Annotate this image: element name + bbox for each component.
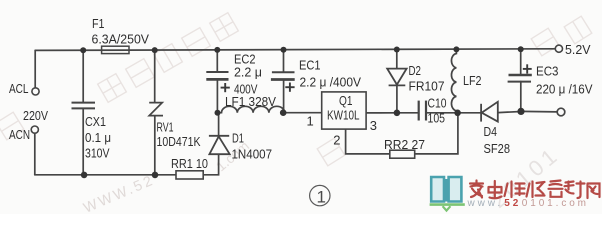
svg-text:0101.com: 0101.com (522, 198, 589, 209)
node RV1 top (152, 47, 158, 53)
wire left vertical to ACL (34, 50, 36, 87)
node EC3 top (518, 46, 524, 52)
terminal ACL (32, 88, 39, 95)
svg-text:310V: 310V (85, 145, 110, 160)
svg-text:LF2: LF2 (463, 73, 482, 88)
svg-text:SF28: SF28 (484, 141, 511, 156)
wire top rail (35, 49, 555, 51)
capacitor EC2 (206, 72, 228, 79)
svg-text:F1: F1 (92, 16, 105, 31)
faint box left edge (0, 112, 24, 140)
svg-text:KW10L: KW10L (327, 108, 360, 123)
resistor RR2 (390, 150, 415, 158)
node LF2 top (453, 46, 459, 52)
svg-text:LF1 328V: LF1 328V (225, 94, 276, 109)
wire D1 top (218, 113, 220, 136)
wire RV1 top (154, 50, 156, 102)
svg-text:220V: 220V (23, 108, 48, 123)
wire ACN down (34, 133, 36, 175)
IC Q1 KW10L (322, 92, 366, 129)
node RV1 bottom (152, 172, 159, 179)
capacitor EC1 (271, 72, 295, 79)
wire node to C10 (397, 112, 418, 114)
logo url www.520101.com (467, 198, 589, 209)
terminal output plus (555, 45, 562, 52)
wire EC2 bottom to LF1 node (216, 80, 218, 113)
svg-text:2: 2 (333, 133, 340, 148)
wire EC1 top (283, 50, 285, 72)
glyph wang (588, 184, 600, 199)
faint watermark latin runs (81, 138, 564, 217)
wire Q1 pin3 (366, 112, 397, 114)
wire node to Q1 pin1 (284, 112, 322, 114)
svg-text:105: 105 (428, 110, 446, 125)
svg-text:WWW.52: WWW.52 (81, 172, 157, 214)
wire RR2 right up to node (415, 113, 458, 154)
svg-text:Q1: Q1 (339, 93, 353, 108)
wire EC1 bottom (283, 80, 285, 113)
terminal output minus (557, 108, 565, 116)
diode D2 (387, 69, 406, 86)
node D2 top (394, 47, 400, 53)
plus EC2 (221, 83, 230, 92)
svg-text:6.3A/250V: 6.3A/250V (92, 32, 150, 47)
node LF1 left / EC2 bottom (215, 110, 221, 116)
inductor LF2 (451, 50, 456, 113)
figure number circled 1 (310, 185, 330, 205)
node CX1 top (80, 47, 86, 53)
faint watermark: diagonal glyph boxes top-left run (0, 13, 592, 166)
svg-text:220 μ /16V: 220 μ /16V (536, 82, 593, 97)
node LF1 right / EC1 bottom (280, 109, 287, 116)
wire EC3 bottom (520, 82, 522, 112)
wire Q1 pin2 down (346, 129, 390, 154)
svg-text:2.2 μ /400V: 2.2 μ /400V (300, 74, 362, 89)
fuse F1 (102, 46, 129, 53)
capacitor CX1 (72, 103, 96, 109)
wire CX1 bottom (82, 109, 84, 175)
wire EC3 top (520, 49, 522, 74)
svg-text:ACL: ACL (9, 81, 29, 96)
wire C10 to LF2 node (427, 112, 457, 114)
wire D2 top (396, 50, 398, 69)
capacitor EC3 (508, 75, 532, 82)
glyph jia (470, 181, 483, 198)
svg-text:D4: D4 (484, 124, 498, 139)
svg-text:ACN: ACN (9, 127, 30, 142)
diode D1 (209, 136, 230, 154)
plus EC1 (285, 83, 294, 92)
svg-text:C10: C10 (428, 96, 447, 111)
glyph liao (565, 182, 585, 199)
node LF2 bottom / C10 right (454, 110, 461, 117)
svg-text:5.2V: 5.2V (565, 42, 591, 57)
wire bottom-left rail (35, 174, 176, 176)
svg-text:1: 1 (317, 187, 326, 206)
svg-text:3: 3 (370, 118, 377, 133)
glyph dian (489, 181, 502, 198)
svg-text:0.1 μ: 0.1 μ (85, 130, 111, 145)
logo book base (430, 205, 465, 211)
svg-text:FR107: FR107 (409, 78, 445, 93)
svg-text:EC3: EC3 (536, 64, 559, 79)
node EC3 bottom (517, 108, 524, 115)
svg-text:RR1 10: RR1 10 (171, 156, 208, 171)
svg-text:EC1: EC1 (299, 57, 321, 72)
svg-text:1N4007: 1N4007 (232, 146, 273, 161)
node EC2 top (214, 47, 220, 53)
wire node to D4 (458, 112, 481, 114)
wire bottom-right rail to output (521, 110, 557, 113)
svg-text:D1: D1 (232, 131, 244, 146)
wire D2 bottom (396, 85, 398, 112)
logo book icon (431, 177, 461, 202)
glyph zi (549, 181, 563, 197)
svg-text:52: 52 (504, 198, 521, 209)
wire RR1 right to D1 bottom (203, 154, 218, 174)
node EC1 top (281, 47, 287, 53)
resistor RR1 (176, 171, 203, 179)
svg-text:RR2 27: RR2 27 (384, 137, 425, 152)
inductor LF1 (218, 106, 285, 112)
diode D4 (481, 102, 498, 122)
node pin3 / D2 bottom (394, 110, 401, 117)
svg-text:CX1: CX1 (85, 114, 106, 129)
glyph wei (505, 182, 525, 198)
svg-text:www.: www. (467, 198, 504, 209)
svg-text:10D471K: 10D471K (157, 134, 201, 149)
plus EC3 (523, 64, 532, 73)
node CX1 bottom (81, 172, 88, 179)
svg-text:D2: D2 (409, 63, 422, 78)
wire EC2 top (216, 50, 218, 72)
varistor RV1 (149, 103, 163, 116)
logo chinese glyph strokes (470, 181, 600, 199)
faint boxes top right (531, 28, 559, 56)
svg-text:1: 1 (307, 114, 314, 129)
terminal ACN (31, 126, 38, 133)
wire D4 to EC3 node (498, 112, 521, 113)
wire CX1 top (82, 50, 84, 102)
svg-text:2.2 μ: 2.2 μ (234, 65, 262, 80)
glyph xiu (527, 182, 545, 198)
capacitor C10 (419, 101, 426, 121)
wire RV1 bottom (154, 116, 156, 175)
svg-text:RV1: RV1 (157, 119, 174, 134)
